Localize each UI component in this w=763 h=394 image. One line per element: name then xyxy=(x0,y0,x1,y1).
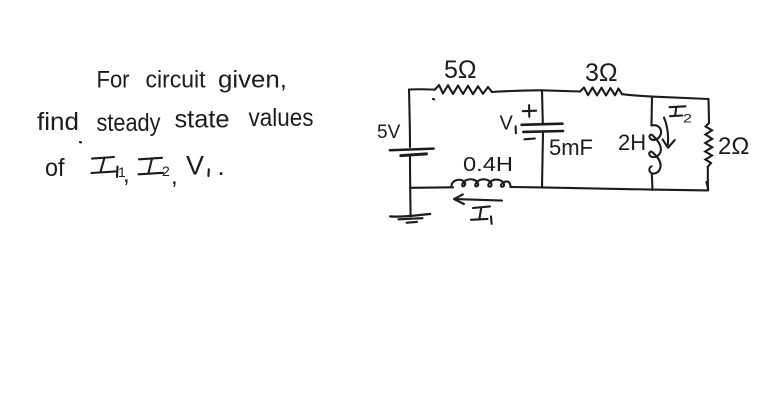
svg-text:5Ω: 5Ω xyxy=(444,56,477,84)
svg-text:steady: steady xyxy=(97,109,161,137)
svg-text:V: V xyxy=(500,113,514,135)
svg-text:5mF: 5mF xyxy=(549,135,593,160)
svg-text:For: For xyxy=(97,67,130,94)
svg-text:2Ω: 2Ω xyxy=(718,133,749,160)
svg-text:find: find xyxy=(37,108,79,136)
svg-text:of: of xyxy=(45,154,65,182)
svg-text:V: V xyxy=(186,151,204,181)
svg-text:,: , xyxy=(171,163,178,190)
svg-text:2: 2 xyxy=(162,163,170,179)
svg-text:0.4H: 0.4H xyxy=(463,154,513,176)
svg-text:.: . xyxy=(218,151,225,181)
svg-text:2: 2 xyxy=(683,112,692,126)
svg-text:given,: given, xyxy=(218,67,287,94)
svg-text:,: , xyxy=(123,161,130,188)
svg-text:values: values xyxy=(249,104,314,132)
svg-text:circuit: circuit xyxy=(146,67,206,94)
svg-text:5V: 5V xyxy=(377,122,401,143)
svg-text:3Ω: 3Ω xyxy=(585,59,618,87)
svg-text:2H: 2H xyxy=(618,130,646,155)
svg-text:state: state xyxy=(175,106,230,134)
